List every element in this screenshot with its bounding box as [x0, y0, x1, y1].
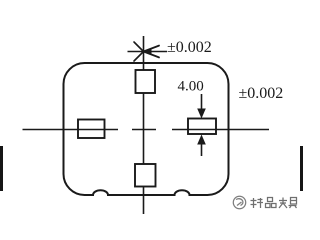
horizontal centerline segment right — [172, 129, 269, 131]
char 具 — [289, 198, 297, 209]
watermark text 特晶夹具 (drawn as glyph-like strokes) — [251, 198, 297, 209]
char 特 — [251, 198, 264, 208]
right pocket rectangle (dimensioned 4.00) — [188, 119, 216, 135]
leader open arrowhead pointing left at target point — [144, 46, 160, 58]
left edge watermark bar — [0, 146, 3, 191]
horizontal centerline segment center (short dash at center cross) — [132, 129, 156, 131]
clamp square bottom (on centerline) — [135, 164, 156, 187]
svg-text:4.00: 4.00 — [178, 79, 204, 95]
dimension arrow up (below right pocket) — [201, 140, 203, 156]
horizontal centerline segment left — [23, 129, 119, 131]
svg-text:±0.002: ±0.002 — [167, 39, 212, 56]
target point mark: X diagonal rays at top of centerline — [134, 42, 144, 61]
watermark logo circle — [233, 196, 245, 208]
vertical centerline — [143, 36, 145, 214]
char 晶 — [266, 198, 277, 208]
svg-text:±0.002: ±0.002 — [239, 85, 284, 102]
leader line with tick (from target point to tolerance text) — [128, 51, 168, 53]
part outline (rounded rectangle with two bottom notches) — [64, 63, 229, 195]
dimension arrow down (above right pocket) — [201, 94, 203, 113]
right edge watermark bar — [300, 146, 303, 191]
arrow tip fill — [144, 48, 152, 54]
clamp square top (on centerline) — [136, 70, 156, 93]
left pocket rectangle — [78, 120, 105, 139]
char 夹 — [279, 198, 287, 209]
